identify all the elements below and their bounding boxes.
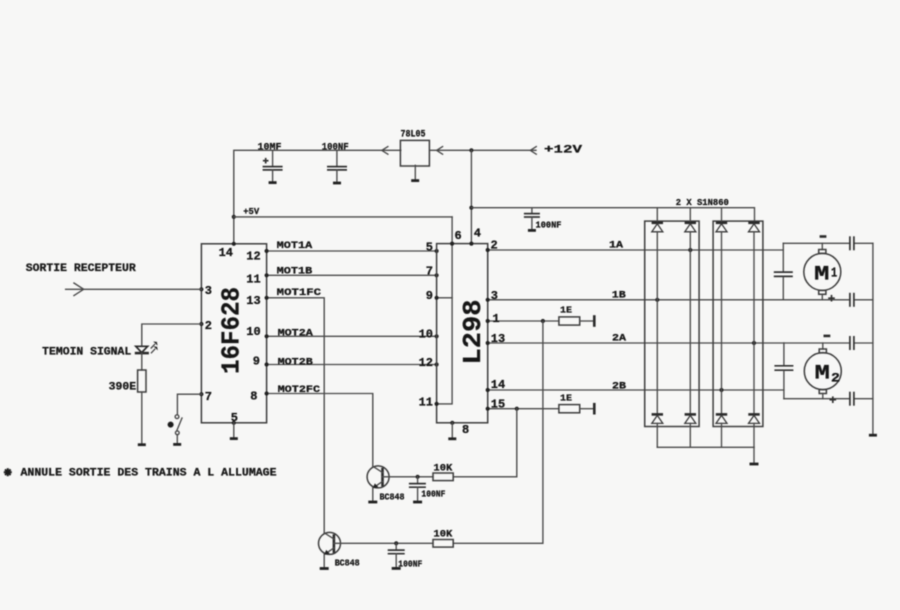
- svg-text:3: 3: [491, 289, 498, 303]
- svg-text:16F628: 16F628: [217, 287, 247, 374]
- svg-text:10MF: 10MF: [258, 142, 282, 153]
- diode D7 bottom col3: [716, 414, 727, 447]
- svg-text:M: M: [814, 263, 829, 286]
- svg-text:TEMOIN SIGNAL: TEMOIN SIGNAL: [42, 346, 131, 358]
- node Q1 base cap junction: [416, 475, 420, 479]
- node Q2 base cap junction: [394, 541, 398, 545]
- wire bottom bus of diodes: [657, 446, 754, 448]
- arrow into regulator right: [437, 147, 443, 155]
- capacitor C11 on M2 bottom edge: [850, 392, 854, 406]
- svg-text:10: 10: [419, 328, 433, 342]
- wire Q1 base line: [383, 476, 434, 478]
- diode D4 top col4: [748, 223, 759, 232]
- resistor R4 10K: [433, 473, 453, 481]
- node 1A diode tap: [688, 248, 692, 252]
- wire pin15 to sense resistor: [488, 408, 559, 410]
- ground below C2: [333, 182, 341, 185]
- label plus M2: [830, 396, 837, 403]
- svg-text:MOT2B: MOT2B: [278, 357, 313, 368]
- diode array DA1 box: [645, 221, 699, 426]
- diode D8 bottom col4: [748, 414, 759, 447]
- svg-text:12: 12: [246, 250, 260, 264]
- svg-text:11: 11: [419, 395, 433, 409]
- svg-text:9: 9: [426, 289, 433, 303]
- wire 2A from l298 pin13 to motor M2: [488, 342, 784, 344]
- node pin 2: [199, 322, 203, 326]
- wire diode column 1: [656, 232, 658, 414]
- wire pin 2 to LED: [142, 324, 202, 346]
- svg-text:8: 8: [250, 389, 257, 403]
- wire motors right vertical to ground: [872, 243, 874, 434]
- svg-text:1A: 1A: [609, 241, 623, 252]
- resistor R2 1E: [559, 317, 580, 325]
- capacitor C4 100NF on Q1 base: [409, 477, 426, 501]
- svg-text:7: 7: [205, 390, 212, 404]
- motor M1 frame bottom edge: [783, 299, 873, 301]
- motor M1 frame left with capacitor C7: [774, 243, 793, 299]
- svg-text:+5V: +5V: [243, 206, 259, 217]
- node pic pin9: [265, 362, 269, 366]
- svg-text:6: 6: [455, 229, 462, 243]
- svg-text:2 X S1N860: 2 X S1N860: [676, 197, 729, 208]
- wire Q2 base line: [334, 542, 433, 544]
- terminal bar after 1E: [593, 315, 596, 327]
- node pic pin11: [265, 273, 269, 277]
- svg-text:14: 14: [219, 246, 233, 260]
- wire MOT2A pic10 to l298 pin10: [267, 335, 437, 337]
- arrow into 78L05 input: [382, 147, 388, 155]
- svg-text:100NF: 100NF: [322, 142, 349, 153]
- node pin 1: [486, 319, 490, 323]
- ground below C4: [413, 501, 422, 504]
- wire pin15 branch down to Q2 base line: [453, 409, 517, 477]
- ground below Q2 emitter: [320, 567, 329, 570]
- svg-text:1: 1: [492, 312, 499, 326]
- svg-text:10: 10: [246, 325, 260, 339]
- ground below C5: [392, 567, 401, 570]
- svg-text:15: 15: [491, 397, 505, 411]
- node pin 4: [469, 242, 473, 246]
- arrow +12V entry: [530, 147, 536, 155]
- resistor R3 1E: [559, 405, 580, 413]
- node l298 pin7: [435, 273, 439, 277]
- ground below C3: [528, 229, 536, 232]
- capacitor C9 on M2 top edge: [850, 336, 854, 350]
- ground below PIC: [230, 437, 238, 440]
- svg-text:10K: 10K: [433, 530, 452, 541]
- wire pin 7 to switch: [177, 394, 201, 414]
- svg-text:1B: 1B: [612, 291, 626, 302]
- ground below motor frames: [869, 434, 877, 437]
- resistor R5 10K: [433, 540, 453, 548]
- svg-text:7: 7: [426, 265, 433, 279]
- ground below C1: [269, 181, 277, 184]
- node pin 15: [486, 407, 490, 411]
- wire pin 8 to ground: [450, 421, 454, 425]
- wire +5V rail to L298 pin 6: [234, 216, 452, 218]
- resistor R1 390E: [138, 370, 146, 392]
- wire MOT1B pic11 to l298 pin7: [267, 274, 437, 276]
- node pin 13: [486, 341, 490, 345]
- node pic pin8: [265, 391, 269, 395]
- IC U3 L298 body: [437, 244, 488, 423]
- wire MOT1FC pic13 down to Q2 collector: [267, 298, 325, 533]
- node 1B diode tap: [655, 298, 659, 302]
- svg-text:2: 2: [831, 371, 840, 386]
- wire 1B from l298 pin3 to motor M1: [488, 299, 784, 301]
- regulator U2 78L05: [400, 140, 429, 166]
- node pin 7: [199, 392, 203, 396]
- node pin 11: [435, 402, 439, 406]
- wire receiver input to pin 3: [66, 288, 202, 290]
- svg-text:BC848: BC848: [335, 557, 360, 568]
- node +12V junction on top wire: [469, 148, 473, 152]
- ground below 390E: [138, 443, 146, 446]
- node pic pin12: [265, 249, 269, 253]
- svg-text:1E: 1E: [560, 392, 572, 403]
- IC U1 16F628 body: [201, 244, 266, 423]
- ground below L298: [448, 437, 456, 440]
- svg-text:SORTIE RECEPTEUR: SORTIE RECEPTEUR: [26, 263, 136, 275]
- motor M2 symbol: [804, 343, 841, 399]
- svg-text:390E: 390E: [109, 381, 137, 393]
- node pin 9: [435, 296, 439, 300]
- node pic pin13: [265, 296, 269, 300]
- svg-text:MOT1B: MOT1B: [277, 267, 313, 278]
- svg-text:MOT1A: MOT1A: [277, 241, 313, 252]
- wire resistor to ground: [141, 392, 143, 444]
- label plus M1: [828, 295, 835, 302]
- node l298 pin10: [435, 334, 439, 338]
- svg-text:9: 9: [253, 355, 260, 369]
- svg-text:+12V: +12V: [544, 144, 583, 156]
- ground below diode bus: [750, 463, 759, 466]
- capacitor C6 on M1 top edge: [850, 236, 854, 250]
- wire pin 5 to ground: [232, 421, 236, 425]
- motor M2 frame bottom edge: [784, 398, 873, 400]
- capacitor C1 10MF: [263, 150, 283, 181]
- LED D1 temoin: [135, 342, 158, 354]
- node 2B diode tap: [719, 388, 723, 392]
- motor M1 frame top edge: [783, 242, 873, 244]
- svg-text:11: 11: [246, 273, 260, 287]
- svg-text:2: 2: [491, 238, 498, 252]
- ground below switch: [173, 443, 181, 446]
- transistor Q1 BC848 upper: [367, 466, 389, 501]
- svg-text:8: 8: [462, 423, 469, 437]
- capacitor C8 on M1 bottom edge: [850, 293, 854, 307]
- wire bus to ground: [753, 447, 755, 463]
- star annotation at switch: [168, 422, 174, 428]
- diode D6 bottom col2: [685, 414, 696, 447]
- svg-text:ANNULE SORTIE DES TRAINS A L A: ANNULE SORTIE DES TRAINS A L ALLUMAGE: [21, 468, 277, 480]
- svg-text:12: 12: [419, 356, 433, 370]
- node 2A diode tap: [752, 341, 756, 345]
- svg-text:13: 13: [491, 332, 505, 346]
- ground below 78L05: [411, 165, 419, 180]
- diode D2 top col2: [685, 208, 696, 232]
- wire +12V down to L298 pin 4: [470, 150, 472, 243]
- svg-text:78L05: 78L05: [401, 130, 426, 141]
- svg-text:3: 3: [205, 284, 212, 298]
- capacitor C5 100NF on Q2 base: [388, 543, 405, 567]
- svg-text:14: 14: [491, 378, 505, 392]
- node pin1 branch junction: [541, 319, 545, 323]
- capacitor C2 100NF top: [327, 150, 347, 182]
- node pin 6: [450, 242, 454, 246]
- svg-text:MOT2FC: MOT2FC: [278, 385, 321, 396]
- wire pin1 to sense resistor: [488, 320, 559, 322]
- svg-text:2B: 2B: [612, 381, 626, 392]
- wire LED to resistor: [141, 353, 143, 370]
- svg-text:1: 1: [831, 266, 837, 281]
- wire 78L05 output to +12V: [430, 149, 536, 151]
- switch S1: [175, 415, 182, 444]
- motor M2 frame top edge: [784, 342, 873, 344]
- svg-text:2: 2: [205, 319, 212, 333]
- svg-text:1E: 1E: [560, 304, 572, 315]
- wire +12V rail to diode bridges: [471, 208, 754, 222]
- wire 1A from l298 pin2 to motor M1: [488, 249, 784, 251]
- svg-text:MOT2A: MOT2A: [278, 328, 313, 339]
- diode D5 bottom col1: [652, 414, 663, 447]
- wire MOT2B pic9 to l298 pin12: [267, 364, 437, 366]
- svg-text:5: 5: [426, 240, 433, 254]
- svg-text:MOT1FC: MOT1FC: [277, 288, 321, 299]
- diode D1 top col1: [652, 208, 663, 232]
- wire MOT2FC pic8 down to Q1 collector: [267, 394, 373, 467]
- svg-text:10K: 10K: [433, 463, 452, 474]
- node pin 14 top: [232, 242, 236, 246]
- wire +5V down inside to pins 6 9 11: [437, 217, 453, 404]
- wire pin 9 tap: [437, 297, 453, 299]
- node junction +12V rail branch: [469, 206, 473, 210]
- svg-text:BC848: BC848: [380, 491, 405, 502]
- label minus M2: [824, 335, 831, 338]
- node +5V junction: [232, 215, 236, 219]
- motor M1 symbol: [804, 243, 841, 299]
- wire resistor to end bar: [580, 408, 595, 410]
- wire resistor to end bar: [580, 320, 595, 322]
- star for footnote: [4, 468, 12, 476]
- wire diode column 3: [721, 232, 723, 414]
- label minus M1: [820, 235, 827, 238]
- node pin 3: [199, 287, 203, 291]
- terminal bar after 1E: [593, 403, 596, 415]
- node pin 14: [486, 388, 490, 392]
- transistor Q2 BC848 lower: [319, 532, 341, 567]
- svg-text:M: M: [815, 363, 830, 386]
- svg-text:13: 13: [246, 294, 260, 308]
- wire top +5V rail from caps to 78L05: [234, 150, 401, 244]
- svg-text:L298: L298: [458, 300, 488, 365]
- arrow on receiver wire: [74, 283, 84, 296]
- wire MOT1A pic12 to l298 pin5: [267, 250, 437, 252]
- wire 2B from l298 pin14 to motor M2: [488, 389, 784, 391]
- wire diode column 2: [689, 232, 691, 414]
- diode D3 top col3: [716, 208, 727, 232]
- wire pin1 branch down to Q1 base line: [453, 321, 543, 543]
- svg-text:100NF: 100NF: [398, 559, 422, 570]
- node pin 2: [486, 248, 490, 252]
- node l298 pin12: [435, 362, 439, 366]
- svg-text:2A: 2A: [612, 333, 626, 344]
- node l298 pin5: [435, 249, 439, 253]
- diode array DA2 box: [713, 221, 763, 426]
- node pin15 branch junction: [515, 407, 519, 411]
- capacitor C3 100NF on +12V rail: [524, 208, 540, 230]
- node pin 3: [486, 298, 490, 302]
- ground below Q1 emitter: [368, 501, 377, 504]
- wire diode column 4: [753, 232, 755, 414]
- svg-text:4: 4: [474, 226, 481, 240]
- motor M2 frame left with capacitor C10: [774, 343, 793, 399]
- svg-text:100NF: 100NF: [536, 219, 562, 230]
- node pic pin10: [265, 334, 269, 338]
- svg-text:100NF: 100NF: [421, 488, 445, 499]
